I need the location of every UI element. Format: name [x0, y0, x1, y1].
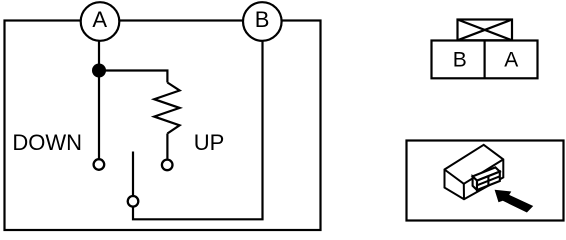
arrow pointing to relay connector — [495, 190, 534, 213]
relay unit: body silhouette — [445, 145, 504, 199]
connector symbol: crossed keying box — [458, 20, 513, 41]
relay unit: connector top sliver — [473, 167, 500, 180]
wire: from switch pole to terminal B — [133, 42, 263, 220]
wire: vertical from terminal A down to DOWN contact — [98, 42, 100, 159]
svg-text:B: B — [453, 49, 467, 72]
resistor UP (zigzag) — [154, 83, 179, 134]
svg-text:A: A — [92, 7, 107, 32]
relay unit: connector left sliver — [473, 176, 477, 190]
connector symbol: cavity divider — [484, 41, 486, 79]
relay unit: connector face with 2x2 cells — [477, 172, 500, 190]
switch: pole contact (open circle) — [128, 196, 139, 207]
terminal: UP contact (open circle) — [162, 160, 173, 171]
relay unit: top face front edges — [445, 159, 504, 183]
svg-text:A: A — [504, 48, 518, 71]
connector symbol: pin cavity box — [432, 41, 538, 79]
svg-text:DOWN: DOWN — [12, 130, 82, 155]
switch: movable blade — [132, 152, 134, 196]
wire: resistor bottom lead — [166, 134, 168, 159]
relay unit: front vertical edge — [463, 184, 465, 199]
component locator box — [407, 141, 564, 221]
svg-text:UP: UP — [194, 130, 225, 155]
wire: outer circuit loop box — [5, 21, 321, 231]
terminal: DOWN contact (open circle) — [94, 159, 105, 170]
terminal B (circle) — [243, 2, 282, 41]
terminal A (circle) — [81, 2, 120, 41]
node: junction dot — [92, 64, 106, 78]
wire: from junction to resistor top — [99, 71, 167, 83]
svg-text:B: B — [255, 7, 270, 32]
